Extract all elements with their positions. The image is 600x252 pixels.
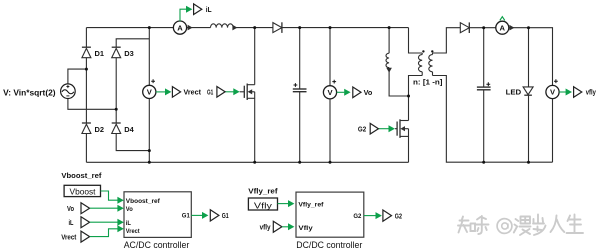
svg-text:G1: G1 — [222, 211, 229, 220]
svg-text:Vboost_ref: Vboost_ref — [61, 171, 101, 180]
svg-text:LED: LED — [506, 87, 522, 96]
svg-text:G2: G2 — [395, 212, 402, 221]
svg-text:G1: G1 — [207, 88, 213, 97]
svg-text:Vfly_ref: Vfly_ref — [248, 187, 278, 196]
svg-text:Vboost: Vboost — [70, 186, 97, 196]
svg-text:Vfly_ref: Vfly_ref — [298, 201, 324, 208]
svg-text:vfly: vfly — [260, 222, 272, 231]
svg-text:D3: D3 — [124, 49, 134, 58]
svg-text:D1: D1 — [95, 49, 105, 58]
svg-text:vfly: vfly — [586, 88, 597, 97]
svg-text:Vfly: Vfly — [298, 225, 313, 232]
svg-text:DC/DC controller: DC/DC controller — [296, 240, 362, 251]
svg-text:G2: G2 — [358, 125, 366, 134]
svg-text:Vrect: Vrect — [184, 88, 202, 97]
svg-text:Vrect: Vrect — [126, 228, 140, 235]
svg-text:G2: G2 — [353, 213, 361, 220]
svg-text:iL: iL — [206, 5, 212, 14]
svg-text:Vfly: Vfly — [254, 201, 273, 211]
svg-text:Vrect: Vrect — [61, 232, 77, 241]
svg-text:Vo: Vo — [126, 206, 133, 213]
svg-text:D2: D2 — [95, 125, 105, 134]
svg-text:V: Vin*sqrt(2): V: Vin*sqrt(2) — [3, 89, 56, 98]
svg-text:n: [1 -n]: n: [1 -n] — [413, 78, 443, 87]
svg-text:iL: iL — [126, 220, 131, 227]
svg-text:Vo: Vo — [364, 88, 373, 97]
svg-text:Vboost_ref: Vboost_ref — [126, 198, 161, 205]
svg-text:A: A — [177, 23, 183, 32]
svg-text:D4: D4 — [124, 125, 134, 134]
svg-text:A: A — [500, 23, 506, 32]
svg-text:AC/DC controller: AC/DC controller — [124, 240, 190, 251]
svg-text:Vo: Vo — [67, 204, 74, 213]
svg-text:G1: G1 — [182, 213, 190, 220]
svg-text:iL: iL — [69, 218, 74, 227]
